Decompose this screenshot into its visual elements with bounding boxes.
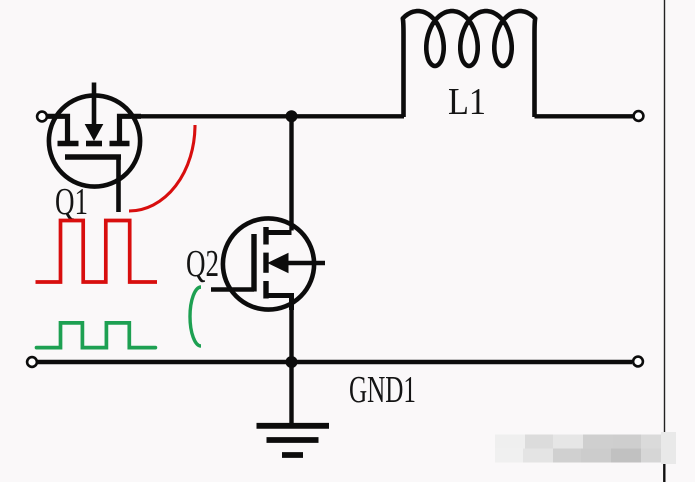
label L1 [448, 81, 486, 123]
inductor L1 [403, 11, 535, 117]
leader arc (green) near Q2 gate [190, 287, 201, 346]
junction node SW (top) [286, 110, 298, 122]
wire: L1 right leg to output terminal [535, 114, 634, 118]
wire: Q1 source to node SW [139, 114, 292, 118]
Q1 source stub [120, 116, 142, 143]
terminal pin (bottom-left) [27, 357, 37, 367]
junction node GND (bottom) [286, 356, 298, 368]
Q1 body lead [92, 83, 97, 127]
terminal pin (top-left input) [37, 112, 47, 122]
waveform: Q1 gate drive (red PWM) [36, 221, 158, 283]
wire: ground stem [289, 362, 293, 423]
Q1 channel bar middle [86, 141, 102, 147]
Q2 body lead [286, 261, 325, 266]
transistor Q2 (low-side MOSFET) [211, 218, 325, 310]
wire: node SW to inductor L1 left leg [292, 114, 404, 118]
terminal pin (top-right output) [634, 111, 644, 121]
Q1 body arrow [86, 125, 103, 141]
ground symbol [257, 426, 330, 455]
wire: SW rail down to Q2 drain [289, 116, 293, 230]
svg-text:GND1: GND1 [349, 369, 416, 411]
label GND1 [349, 369, 416, 411]
label Q2 [186, 243, 219, 285]
wire: top-left terminal to Q1 drain stub [47, 114, 68, 118]
Q1 gate lead [116, 157, 121, 212]
Q2 channel bar middle [263, 253, 268, 273]
Q2 gate lead [211, 287, 254, 292]
svg-text:Q2: Q2 [186, 243, 219, 285]
label Q1 [55, 181, 88, 223]
wire: bottom ground rail [37, 360, 632, 364]
Q2 channel bar bottom [263, 281, 268, 299]
terminal pin (bottom-right) [633, 357, 643, 367]
Q2 drain stub [266, 230, 292, 235]
Q2 body arrow [269, 254, 289, 273]
svg-text:Q1: Q1 [55, 181, 88, 223]
Q1 drain stub [47, 116, 68, 143]
waveform: Q2 gate drive (green PWM) [37, 323, 156, 348]
Q2 channel bar top [263, 227, 268, 245]
Q1 gate bar [65, 154, 121, 160]
svg-text:L1: L1 [448, 81, 486, 123]
transistor Q1 (high-side MOSFET, rotated) [47, 83, 141, 213]
leader arc (red) from Q1 gate to waveform [129, 125, 195, 211]
wire: Q2 source down to ground node [289, 298, 293, 363]
Q2 source stub [266, 296, 292, 311]
Q2 gate bar [251, 234, 256, 292]
Q1 channel bar left [58, 141, 79, 147]
Q1 channel bar right [110, 141, 130, 147]
